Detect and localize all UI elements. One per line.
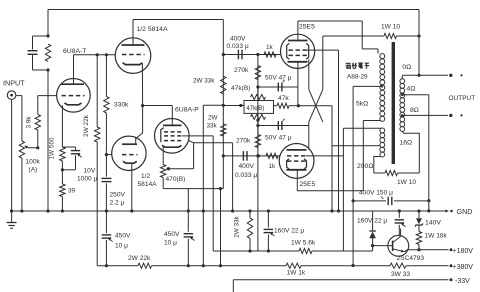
svg-text:5kΩ: 5kΩ <box>356 101 368 108</box>
svg-text:10 μ: 10 μ <box>164 240 177 247</box>
svg-text:400V: 400V <box>230 36 246 43</box>
svg-text:2W: 2W <box>208 115 218 122</box>
svg-text:270k: 270k <box>234 67 249 74</box>
svg-text:1000 μ: 1000 μ <box>77 176 98 183</box>
svg-text:400V 150 μ: 400V 150 μ <box>359 190 393 197</box>
svg-text:10 μ: 10 μ <box>115 243 128 250</box>
svg-text:6U8A-T: 6U8A-T <box>63 48 86 55</box>
svg-text:0.033 μ: 0.033 μ <box>235 172 257 179</box>
svg-text:1/2 5814A: 1/2 5814A <box>137 26 168 33</box>
svg-text:330k: 330k <box>114 102 129 109</box>
svg-text:50V 47 μ: 50V 47 μ <box>265 75 292 82</box>
svg-text:160V 22 μ: 160V 22 μ <box>274 228 304 235</box>
svg-text:6U8A-P: 6U8A-P <box>175 107 199 114</box>
svg-text:50V 47 μ: 50V 47 μ <box>265 135 292 142</box>
svg-text:16Ω: 16Ω <box>400 140 413 147</box>
svg-text:47k(B): 47k(B) <box>246 105 264 112</box>
svg-text:47k: 47k <box>278 95 289 102</box>
svg-text:2W 33k: 2W 33k <box>193 78 215 85</box>
svg-text:1W 5.6k: 1W 5.6k <box>291 240 316 247</box>
svg-text:450V: 450V <box>164 231 180 238</box>
svg-text:140V: 140V <box>425 220 441 227</box>
svg-text:2SC4793: 2SC4793 <box>397 255 425 262</box>
svg-text:8Ω: 8Ω <box>410 107 419 114</box>
svg-text:OUTPUT: OUTPUT <box>449 95 476 102</box>
svg-text:47k(B): 47k(B) <box>231 85 250 92</box>
svg-text:33k: 33k <box>207 123 218 130</box>
svg-text:2.2 μ: 2.2 μ <box>110 200 125 207</box>
svg-text:200Ω: 200Ω <box>357 163 373 170</box>
svg-text:4Ω: 4Ω <box>407 85 416 92</box>
svg-text:25E5: 25E5 <box>300 181 316 188</box>
svg-text:400V: 400V <box>239 163 255 170</box>
svg-text:A88-29: A88-29 <box>347 74 368 81</box>
svg-text:0Ω: 0Ω <box>402 64 411 71</box>
svg-text:39: 39 <box>68 188 76 195</box>
svg-text:3W 33: 3W 33 <box>391 271 410 278</box>
svg-text:100k: 100k <box>26 159 41 166</box>
svg-text:+180V: +180V <box>453 248 474 255</box>
svg-text:2W 22k: 2W 22k <box>128 255 151 262</box>
svg-text:1W 1k: 1W 1k <box>287 270 306 277</box>
svg-text:1W 10: 1W 10 <box>381 24 400 31</box>
svg-text:1k: 1k <box>269 163 277 170</box>
svg-text:+380V: +380V <box>453 264 474 271</box>
svg-text:25E5: 25E5 <box>299 24 315 31</box>
svg-text:10V: 10V <box>84 168 96 175</box>
svg-text:5814A: 5814A <box>138 181 158 188</box>
svg-text:1k: 1k <box>266 44 274 51</box>
svg-text:1W 18k: 1W 18k <box>425 233 448 240</box>
svg-text:-33V: -33V <box>455 278 470 285</box>
svg-text:470(B): 470(B) <box>166 176 186 183</box>
svg-text:2W 33k: 2W 33k <box>234 215 241 237</box>
svg-text:270k: 270k <box>236 138 251 145</box>
svg-text:3.9k: 3.9k <box>26 116 33 129</box>
svg-text:1/2: 1/2 <box>141 173 150 180</box>
svg-text:(A): (A) <box>29 167 38 174</box>
svg-text:1W 560: 1W 560 <box>49 137 56 159</box>
svg-text:450V: 450V <box>115 233 131 240</box>
svg-text:0.033 μ: 0.033 μ <box>227 43 249 50</box>
svg-text:INPUT: INPUT <box>3 79 25 88</box>
svg-text:2W 22k: 2W 22k <box>83 114 90 136</box>
svg-text:GND: GND <box>457 207 473 216</box>
svg-text:1W 10: 1W 10 <box>397 179 416 186</box>
svg-text:250V: 250V <box>110 192 126 199</box>
